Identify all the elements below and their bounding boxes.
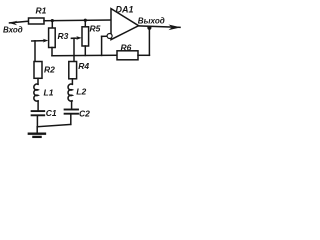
svg-text:R5: R5: [90, 24, 101, 34]
svg-text:R2: R2: [44, 65, 55, 75]
svg-text:R6: R6: [121, 42, 132, 52]
svg-text:L2: L2: [76, 86, 86, 96]
svg-text:C2: C2: [79, 108, 90, 118]
svg-text:Вход: Вход: [3, 26, 23, 35]
svg-text:C1: C1: [46, 108, 57, 118]
svg-text:L1: L1: [44, 88, 54, 98]
svg-text:R1: R1: [36, 6, 47, 16]
svg-text:R3: R3: [58, 31, 69, 41]
svg-text:DA1: DA1: [116, 5, 134, 15]
svg-text:R4: R4: [78, 61, 89, 71]
svg-text:Выход: Выход: [138, 17, 165, 26]
